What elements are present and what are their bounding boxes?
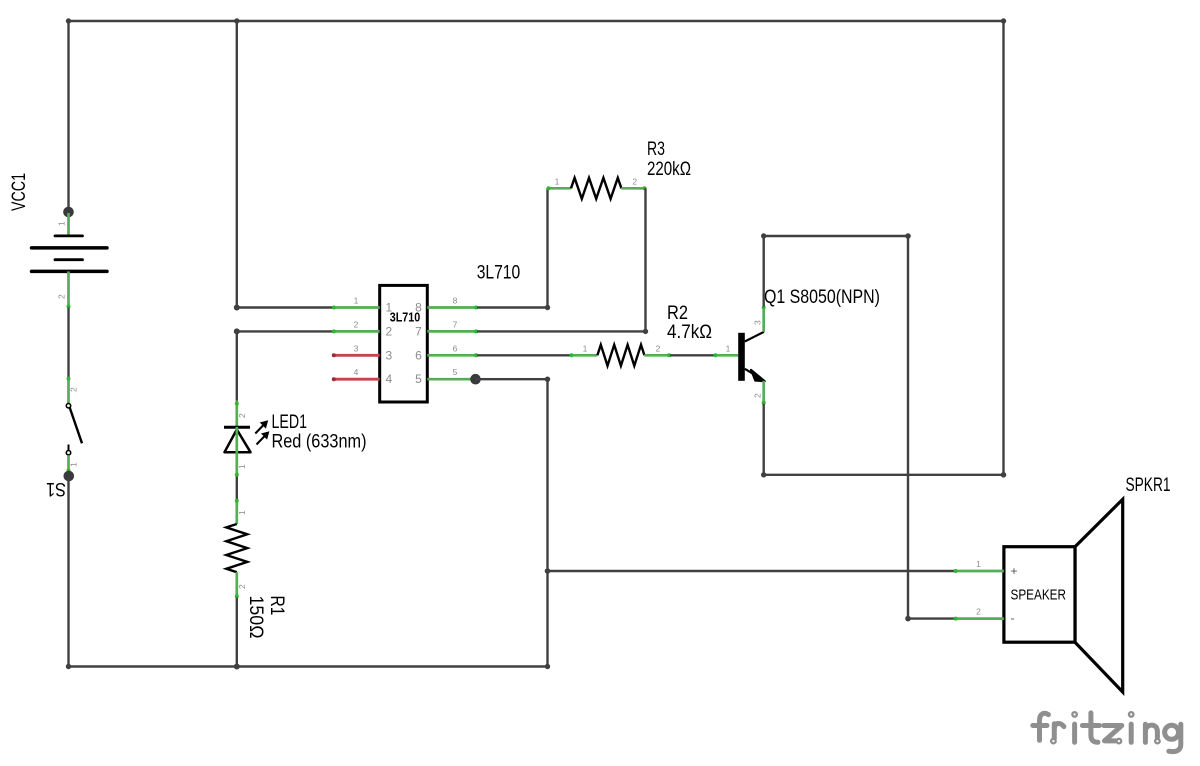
svg-text:3: 3 [386, 348, 393, 362]
svg-text:2: 2 [753, 393, 763, 398]
svg-text:+: + [1011, 564, 1018, 578]
wire switch to bottom rail [64, 471, 75, 667]
IC pin 6 [427, 354, 477, 357]
svg-text:6: 6 [453, 343, 458, 353]
LED1 [224, 401, 367, 477]
resistor R2 [570, 303, 713, 366]
wire battery to switch [67, 308, 69, 379]
svg-text:1: 1 [69, 462, 79, 467]
svg-text:150Ω: 150Ω [245, 596, 266, 639]
svg-text:4: 4 [354, 367, 359, 377]
svg-text:7: 7 [453, 319, 458, 329]
wire R2 to Q1 base [670, 354, 715, 356]
fritzing logo [1033, 712, 1181, 752]
svg-text:3: 3 [354, 343, 359, 353]
svg-text:1: 1 [583, 343, 588, 353]
svg-text:5: 5 [453, 367, 458, 377]
svg-text:3L710: 3L710 [477, 262, 521, 283]
svg-text:VCC1: VCC1 [9, 173, 30, 211]
wire top rail to IC pin 1 [234, 21, 333, 311]
svg-text:LED1: LED1 [272, 412, 308, 433]
wire junction to speaker pin 2 [905, 236, 955, 621]
wire R1 to bottom rail [234, 598, 240, 670]
wire top rail [66, 18, 1006, 23]
svg-text:220kΩ: 220kΩ [647, 159, 691, 180]
transistor Q1 [714, 287, 881, 405]
IC pin 3 (unconnected) [333, 354, 380, 357]
svg-text:2: 2 [57, 294, 67, 299]
wire Q1 emitter to right rail [761, 404, 1006, 478]
svg-text:2: 2 [386, 324, 393, 338]
svg-text:7: 7 [415, 324, 422, 338]
switch S1 [46, 377, 82, 499]
wire bottom rail [66, 664, 550, 669]
svg-text:1: 1 [726, 343, 731, 353]
svg-text:1: 1 [354, 296, 359, 306]
wire IC pin 2 to LED [234, 328, 333, 400]
IC pin 1 [333, 306, 380, 309]
svg-text:1: 1 [57, 221, 67, 226]
svg-text:R1: R1 [266, 596, 287, 616]
svg-text:1: 1 [237, 464, 247, 469]
svg-text:R2: R2 [667, 303, 688, 324]
svg-text:-: - [1011, 611, 1015, 625]
svg-text:1: 1 [976, 559, 981, 569]
wire IC pin 5 to speaker pin 1 and bottom rail [470, 374, 955, 667]
svg-text:2: 2 [237, 584, 247, 589]
wire Q1 collector to top junction [761, 233, 911, 306]
svg-text:8: 8 [453, 296, 458, 306]
battery VCC1 [9, 173, 107, 309]
svg-text:SPEAKER: SPEAKER [1011, 587, 1067, 604]
svg-text:6: 6 [415, 348, 422, 362]
IC pin 5 [427, 378, 475, 381]
svg-text:4.7kΩ: 4.7kΩ [667, 322, 712, 343]
svg-text:2: 2 [976, 607, 981, 617]
svg-text:1: 1 [555, 177, 560, 187]
svg-text:1: 1 [237, 510, 247, 515]
svg-text:2: 2 [237, 413, 247, 418]
svg-text:Red (633nm): Red (633nm) [272, 432, 367, 453]
IC pin 4 (unconnected) [333, 378, 380, 381]
svg-text:3: 3 [753, 320, 763, 325]
svg-text:SPKR1: SPKR1 [1126, 475, 1171, 496]
svg-text:1: 1 [386, 301, 393, 315]
svg-text:8: 8 [415, 301, 422, 315]
IC pin 2 [333, 330, 380, 333]
svg-text:2: 2 [69, 387, 79, 392]
wire R3 to IC pin 7 [477, 188, 648, 334]
wire IC pin 8 to R3 [477, 188, 550, 310]
IC pin 8 [427, 306, 477, 309]
svg-text:5: 5 [415, 372, 422, 386]
speaker SPKR1 [954, 475, 1171, 692]
svg-text:2: 2 [354, 319, 359, 329]
svg-text:S1: S1 [46, 478, 66, 499]
wire right rail [1002, 21, 1004, 475]
svg-text:2: 2 [632, 177, 637, 187]
wire IC pin 6 to R2 [477, 354, 571, 356]
svg-text:4: 4 [386, 372, 393, 386]
wire LED to R1 [236, 477, 238, 500]
resistor R3 [547, 139, 692, 199]
svg-text:Q1 S8050(NPN): Q1 S8050(NPN) [764, 287, 880, 308]
svg-text:R3: R3 [647, 139, 665, 160]
svg-text:2: 2 [656, 343, 661, 353]
IC pin 7 [427, 330, 477, 333]
wire left rail top [67, 21, 69, 212]
resistor R1 [226, 499, 287, 639]
IC U1 3L710 [332, 262, 520, 402]
